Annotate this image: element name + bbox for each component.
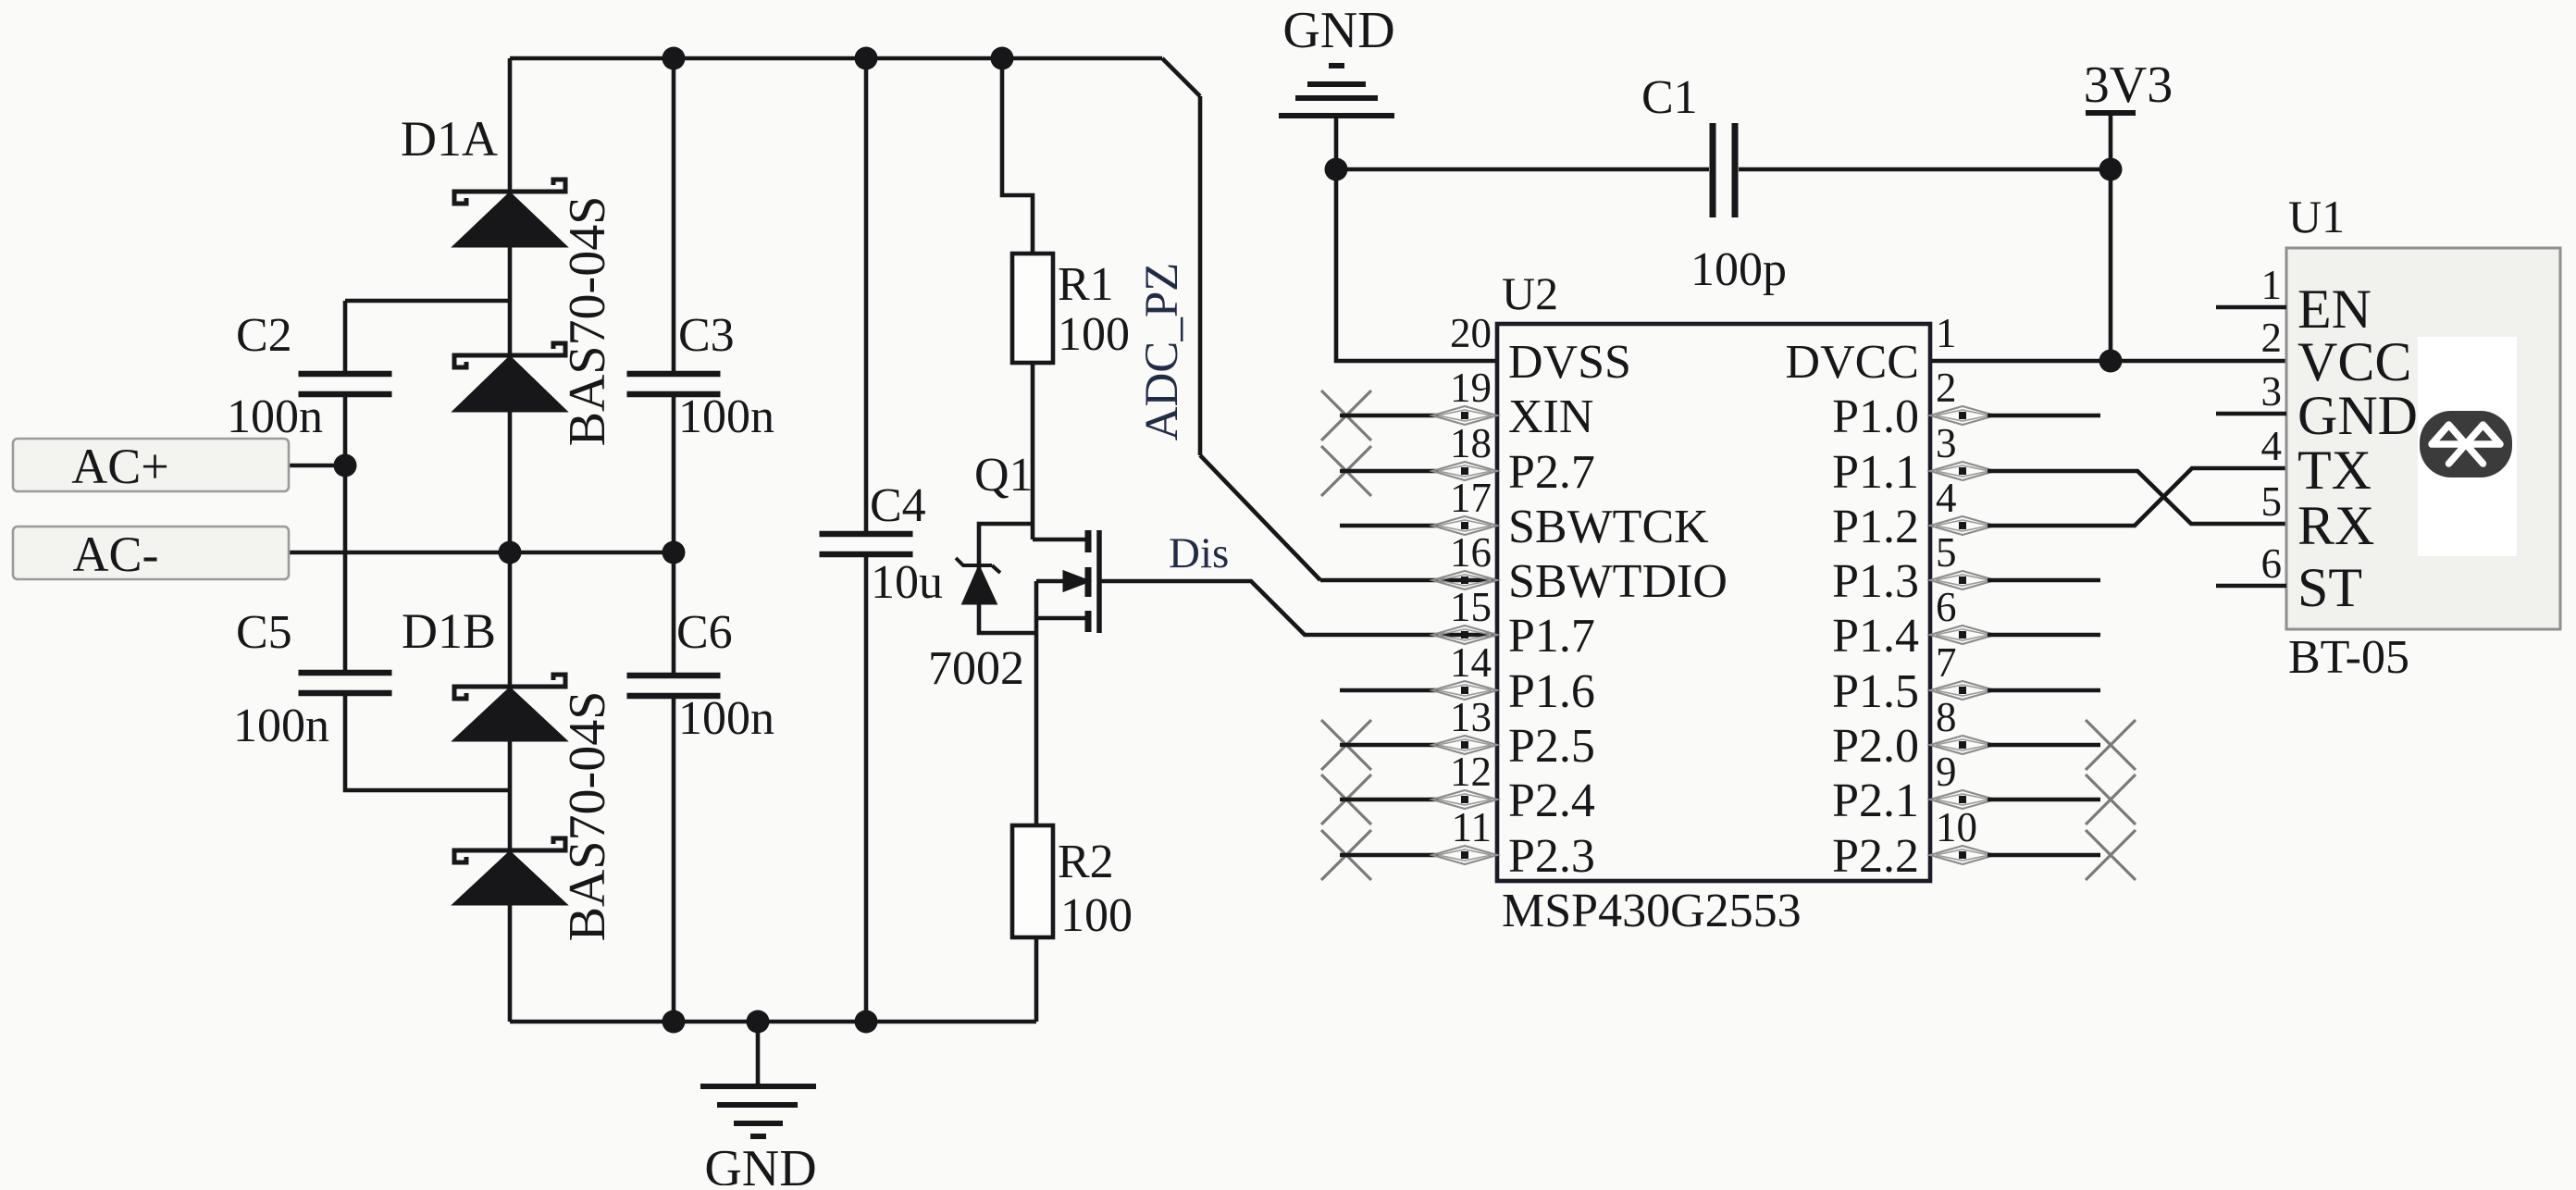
- svg-text:P1.7: P1.7: [1508, 610, 1595, 663]
- svg-text:13: 13: [1450, 694, 1492, 740]
- U2 pin number 9: [1936, 749, 1957, 795]
- U2 pin P2.0 lead: [1930, 720, 2136, 770]
- wire diode chain column: [508, 58, 513, 1022]
- U2 pin name DVCC: [1786, 336, 1919, 389]
- svg-text:P2.4: P2.4: [1508, 775, 1595, 827]
- svg-text:C5: C5: [236, 606, 292, 659]
- svg-text:R1: R1: [1058, 258, 1114, 311]
- svg-text:18: 18: [1450, 420, 1492, 466]
- U2 pin number 5: [1936, 529, 1957, 576]
- U2 pin name SBWTCK: [1508, 501, 1709, 553]
- svg-text:11: 11: [1452, 804, 1492, 850]
- bluetooth logo: [2420, 411, 2512, 477]
- wire GND to DVSS: [1336, 169, 1497, 361]
- svg-text:2: 2: [2261, 315, 2283, 361]
- label C4: [870, 479, 926, 532]
- label D1A: [401, 111, 498, 167]
- U2 pin P1.6 lead: [1340, 681, 1497, 700]
- svg-text:GND: GND: [1282, 2, 1394, 59]
- U1 pin number 4: [2261, 423, 2283, 469]
- U2 pin name P1.3: [1832, 555, 1919, 608]
- U2 pin name P1.5: [1832, 665, 1919, 718]
- svg-text:P1.0: P1.0: [1832, 390, 1919, 443]
- wire top bus: [510, 56, 1162, 61]
- U2 pin P1.0 lead: [1930, 406, 2100, 425]
- U2 pin name DVSS: [1508, 336, 1631, 389]
- svg-text:1: 1: [2261, 262, 2283, 308]
- svg-text:ST: ST: [2297, 557, 2362, 618]
- U2 pin number 13: [1450, 694, 1492, 740]
- svg-text:3V3: 3V3: [2084, 56, 2173, 114]
- U2 pin number 16: [1450, 529, 1492, 576]
- wire C4 to bottom bus: [864, 556, 869, 1022]
- svg-text:Dis: Dis: [1169, 529, 1229, 577]
- label U2: [1502, 267, 1558, 319]
- wire C2 to AC+ node: [343, 396, 348, 465]
- junction 3V3 / C1: [2099, 158, 2123, 181]
- junction top bus / C4: [855, 47, 878, 70]
- wire AC- node to C6: [672, 552, 676, 674]
- ground (bottom): [700, 1022, 816, 1136]
- capacitor C3: [627, 374, 721, 394]
- transistor Q1 source stub: [1036, 616, 1088, 621]
- junction bottom bus / C4: [855, 1010, 878, 1034]
- U2 pin P2.7 lead: [1321, 446, 1497, 496]
- wire DVCC to VCC: [1930, 359, 2286, 364]
- svg-text:5: 5: [1936, 529, 1957, 576]
- junction AC+ / C2: [334, 454, 357, 477]
- wire AC- to C6 top: [289, 551, 674, 555]
- U2 pin number 2: [1936, 365, 1957, 411]
- junction 3V3 / DVCC: [2099, 350, 2123, 373]
- junction top bus / C3: [663, 47, 686, 70]
- U1 pin name TX: [2297, 440, 2372, 501]
- label C1 value 100p: [1690, 243, 1787, 296]
- U2 pin name P2.5: [1508, 720, 1595, 773]
- svg-text:MSP430G2553: MSP430G2553: [1502, 885, 1802, 937]
- wire C3 to AC- node: [672, 396, 676, 552]
- U2 pin number 11: [1452, 804, 1492, 850]
- svg-text:C1: C1: [1641, 71, 1698, 124]
- U2 pin number 19: [1450, 365, 1492, 411]
- svg-text:BAS70-04S: BAS70-04S: [559, 196, 616, 447]
- port AC-: [13, 527, 289, 582]
- U1 pin number 2: [2261, 315, 2283, 361]
- svg-text:P1.3: P1.3: [1832, 555, 1919, 608]
- U2 pin name SBWTDIO: [1508, 555, 1728, 608]
- label C5: [236, 606, 292, 659]
- U2 pin name P2.7: [1508, 446, 1595, 499]
- label C2: [236, 309, 292, 362]
- svg-text:C2: C2: [236, 309, 292, 362]
- U2 pin name XIN: [1508, 390, 1593, 443]
- U1 pin number 1: [2261, 262, 2283, 308]
- wire AC+ stub: [289, 464, 345, 468]
- wire Q1 body loop: [979, 524, 1036, 633]
- label C3: [678, 309, 735, 362]
- svg-text:P1.6: P1.6: [1508, 665, 1595, 718]
- svg-text:R2: R2: [1058, 836, 1114, 888]
- svg-text:7002: 7002: [928, 642, 1024, 695]
- label C4 value 10u: [871, 556, 943, 609]
- U2 pin name P2.0: [1832, 720, 1919, 773]
- label R2 value 100: [1060, 889, 1133, 942]
- svg-text:AC+: AC+: [71, 439, 168, 494]
- svg-text:100n: 100n: [233, 700, 329, 752]
- svg-text:100n: 100n: [678, 390, 774, 443]
- U2 pin name P1.6: [1508, 665, 1595, 718]
- label C6 value 100n: [678, 692, 774, 745]
- module U1 box: [2286, 248, 2560, 629]
- U2 pin number 17: [1450, 475, 1492, 521]
- svg-text:DVSS: DVSS: [1508, 336, 1631, 389]
- U1 pin name ST: [2297, 557, 2362, 618]
- U2 pin number 1: [1936, 310, 1957, 356]
- svg-text:D1A: D1A: [401, 111, 498, 167]
- diode D1B upper (BAS70-04S): [454, 675, 565, 740]
- U1 pin number 3: [2261, 368, 2283, 415]
- svg-text:C3: C3: [678, 309, 735, 362]
- U2 pin number 7: [1936, 639, 1957, 686]
- wire C5 to D1B midpoint: [345, 695, 510, 790]
- transistor Q1 body diode: [956, 558, 1000, 603]
- label C5 value 100n: [233, 700, 329, 752]
- svg-text:VCC: VCC: [2297, 331, 2411, 392]
- svg-text:U1: U1: [2288, 191, 2345, 242]
- resistor R2: [1012, 825, 1053, 937]
- svg-text:P2.7: P2.7: [1508, 446, 1595, 499]
- svg-text:3: 3: [1936, 420, 1957, 466]
- U2 pin P1.4 lead: [1930, 626, 2100, 644]
- label 3V3: [2084, 56, 2173, 114]
- svg-text:1: 1: [1936, 310, 1957, 356]
- svg-text:P1.5: P1.5: [1832, 665, 1919, 718]
- svg-text:P2.3: P2.3: [1508, 830, 1595, 883]
- svg-text:AC-: AC-: [73, 527, 159, 582]
- svg-text:9: 9: [1936, 749, 1957, 795]
- label Q1 value 7002: [928, 642, 1024, 695]
- svg-text:D1B: D1B: [402, 603, 496, 659]
- wire bottom bus: [510, 1020, 1036, 1024]
- svg-text:6: 6: [1936, 584, 1957, 630]
- U2 pin P2.1 lead: [1930, 775, 2136, 824]
- svg-text:19: 19: [1450, 365, 1492, 411]
- U1 pin number 5: [2261, 478, 2283, 525]
- transistor Q1 drain stub: [1033, 538, 1088, 542]
- wire ADC_PZ vertical: [1198, 96, 1203, 455]
- capacitor C2: [299, 374, 392, 394]
- svg-text:ADC_PZ: ADC_PZ: [1136, 263, 1188, 441]
- U2 pin XIN lead: [1321, 390, 1497, 440]
- label C1: [1641, 71, 1698, 124]
- U2 pin number 15: [1450, 584, 1492, 630]
- svg-text:20: 20: [1450, 310, 1492, 356]
- svg-text:14: 14: [1450, 639, 1492, 686]
- svg-text:100p: 100p: [1690, 243, 1787, 296]
- wire P1.1 to RX (crossover): [1988, 471, 2286, 524]
- U2 pin P1.5 lead: [1930, 681, 2100, 700]
- wire C3 column top: [672, 58, 676, 372]
- svg-text:C6: C6: [676, 606, 733, 659]
- wire R1 to Q1 drain: [1031, 363, 1035, 539]
- svg-text:GND: GND: [704, 1140, 816, 1185]
- svg-text:100n: 100n: [678, 692, 774, 745]
- capacitor C4: [820, 534, 913, 554]
- svg-text:P1.4: P1.4: [1832, 610, 1919, 663]
- U1 pin number 6: [2261, 540, 2283, 587]
- U2 pin P1.1 lead: [1930, 462, 1995, 480]
- wire C1 right: [1739, 167, 2111, 172]
- U2 pin number 8: [1936, 694, 1957, 740]
- svg-text:TX: TX: [2297, 440, 2372, 501]
- U2 pin name P2.2: [1832, 830, 1919, 883]
- junction GND / C1: [1325, 158, 1348, 181]
- svg-text:BT-05: BT-05: [2288, 631, 2409, 684]
- net label Dis: [1169, 529, 1229, 577]
- ground (top): [1279, 66, 1394, 169]
- label C6: [676, 606, 733, 659]
- junction AC- / diodes: [499, 541, 522, 564]
- capacitor C1: [1713, 123, 1735, 217]
- svg-text:100: 100: [1058, 308, 1130, 361]
- label U1: [2288, 191, 2345, 242]
- U2 pin name P2.3: [1508, 830, 1595, 883]
- svg-text:3: 3: [2261, 368, 2283, 415]
- junction top bus / R1: [991, 47, 1014, 70]
- label BAS70-04S (D1A): [559, 196, 616, 447]
- svg-text:P2.2: P2.2: [1832, 830, 1919, 883]
- U2 pin number 18: [1450, 420, 1492, 466]
- label C2 value 100n: [227, 390, 323, 443]
- svg-text:10u: 10u: [871, 556, 943, 609]
- wire AC node to C5: [343, 465, 348, 671]
- U2 pin number 10: [1936, 804, 1977, 850]
- svg-text:P2.1: P2.1: [1832, 775, 1919, 827]
- wire R1 branch: [1002, 58, 1033, 254]
- label D1B: [402, 603, 496, 659]
- U2 pin P2.5 lead: [1321, 720, 1497, 770]
- label C3 value 100n: [678, 390, 774, 443]
- wire C6 to bottom bus: [672, 698, 676, 1022]
- U2 pin name P1.1: [1832, 446, 1919, 499]
- svg-text:10: 10: [1936, 804, 1977, 850]
- svg-text:P1.2: P1.2: [1832, 501, 1919, 553]
- U1 pin name GND: [2297, 385, 2418, 446]
- svg-text:BAS70-04S: BAS70-04S: [559, 691, 616, 942]
- capacitor C5: [299, 673, 392, 693]
- wire C1 left: [1336, 167, 1709, 172]
- U2 pin number 20: [1450, 310, 1492, 356]
- U1 inner white panel: [2418, 337, 2517, 556]
- svg-text:16: 16: [1450, 529, 1492, 576]
- transistor Q1 gate bar: [1096, 530, 1102, 633]
- U1 pin name EN: [2297, 279, 2372, 340]
- power 3V3 bar: [2086, 110, 2136, 116]
- wire C4 column top: [864, 58, 869, 532]
- U2 pin SBWTDIO lead: [1432, 571, 1497, 589]
- U1 pin GND stub: [2216, 412, 2286, 416]
- transistor Q1 channel: [1085, 530, 1092, 632]
- svg-text:15: 15: [1450, 584, 1492, 630]
- label R1 value 100: [1058, 308, 1130, 361]
- wire Q1 gate to Dis: [1101, 581, 1497, 635]
- label BAS70-04S (D1B): [559, 691, 616, 942]
- wire P1.2 to TX (crossover): [1988, 468, 2286, 526]
- U2 pin name P2.4: [1508, 775, 1595, 827]
- wire ADC_PZ diagonal to MCU: [1200, 455, 1320, 580]
- diode D1B lower (BAS70-04S): [454, 838, 565, 904]
- U1 pin name RX: [2297, 495, 2374, 556]
- svg-text:17: 17: [1450, 475, 1492, 521]
- diode D1A lower (BAS70-04S): [454, 343, 565, 411]
- svg-text:SBWTDIO: SBWTDIO: [1508, 555, 1728, 608]
- U2 pin number 3: [1936, 420, 1957, 466]
- svg-text:XIN: XIN: [1508, 390, 1593, 443]
- label BT-05: [2288, 631, 2409, 684]
- wire ADC_PZ into SBWTDIO: [1320, 578, 1497, 583]
- wire 3V3 to DVCC wire: [2109, 113, 2113, 361]
- svg-text:U2: U2: [1502, 267, 1558, 319]
- U1 pin name VCC: [2297, 331, 2411, 392]
- wire bus to ADC_PZ corner: [1162, 58, 1200, 96]
- junction bottom bus / GND: [747, 1010, 770, 1034]
- U2 pin number 4: [1936, 475, 1957, 521]
- wire C2 column upper: [343, 301, 348, 372]
- label Q1: [974, 449, 1034, 502]
- diode D1A upper (BAS70-04S): [454, 180, 565, 246]
- U2 pin number 12: [1450, 749, 1492, 795]
- svg-text:C4: C4: [870, 479, 926, 532]
- ic U2 box: [1497, 324, 1930, 881]
- U2 pin name P1.0: [1832, 390, 1919, 443]
- U1 pin EN stub: [2216, 305, 2286, 310]
- label R1: [1058, 258, 1114, 311]
- net label ADC_PZ: [1136, 263, 1188, 441]
- svg-text:6: 6: [2261, 540, 2283, 587]
- U2 pin SBWTCK lead: [1340, 516, 1497, 535]
- label MSP430G2553: [1502, 885, 1802, 937]
- svg-text:8: 8: [1936, 694, 1957, 740]
- wire Q1 source to R2: [1034, 581, 1039, 825]
- svg-text:GND: GND: [2297, 385, 2418, 446]
- U2 pin P2.2 lead: [1930, 830, 2136, 880]
- resistor R1: [1012, 254, 1053, 363]
- svg-text:DVCC: DVCC: [1786, 336, 1919, 389]
- svg-text:P2.5: P2.5: [1508, 720, 1595, 773]
- label GND (top): [1282, 2, 1394, 59]
- U2 pin P1.3 lead: [1930, 571, 2100, 589]
- capacitor C6: [627, 676, 721, 696]
- junction AC- / C3: [663, 541, 686, 564]
- svg-text:SBWTCK: SBWTCK: [1508, 501, 1709, 553]
- U2 pin name P1.7: [1508, 610, 1595, 663]
- junction bottom bus / C6: [663, 1010, 686, 1034]
- U2 pin P2.3 lead: [1321, 830, 1497, 880]
- svg-text:4: 4: [2261, 423, 2283, 469]
- U2 pin name P1.2: [1832, 501, 1919, 553]
- U2 pin number 6: [1936, 584, 1957, 630]
- svg-text:7: 7: [1936, 639, 1957, 686]
- U2 pin P1.7 lead: [1432, 626, 1497, 644]
- U2 pin name P1.4: [1832, 610, 1919, 663]
- U2 pin P2.4 lead: [1321, 775, 1497, 824]
- wire R2 to bottom bus: [1034, 937, 1039, 1022]
- U1 pin ST stub: [2216, 584, 2286, 589]
- svg-text:4: 4: [1936, 475, 1957, 521]
- U2 pin name P2.1: [1832, 775, 1919, 827]
- svg-text:Q1: Q1: [974, 449, 1034, 502]
- svg-text:100n: 100n: [227, 390, 323, 443]
- svg-text:RX: RX: [2297, 495, 2374, 556]
- svg-text:2: 2: [1936, 365, 1957, 411]
- svg-text:P1.1: P1.1: [1832, 446, 1919, 499]
- svg-text:100: 100: [1060, 889, 1133, 942]
- label R2: [1058, 836, 1114, 888]
- label GND (bottom): [704, 1140, 816, 1190]
- U2 pin P1.2 lead: [1930, 516, 1995, 535]
- transistor Q1 body arrow: [1036, 572, 1088, 590]
- U2 pin number 14: [1450, 639, 1492, 686]
- svg-text:5: 5: [2261, 478, 2283, 525]
- wire D1A midpoint to C2: [345, 299, 510, 304]
- svg-text:12: 12: [1450, 749, 1492, 795]
- svg-text:P2.0: P2.0: [1832, 720, 1919, 773]
- port AC+: [13, 439, 289, 494]
